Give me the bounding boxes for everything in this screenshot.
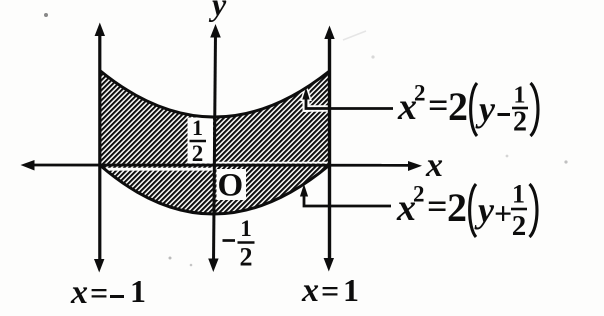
svg-text:1: 1 (192, 115, 203, 140)
y-axis (214, 33, 216, 263)
x=-1 bottom arrowhead (94, 259, 104, 273)
y-axis bottom arrowhead (208, 259, 218, 273)
svg-text:1: 1 (240, 216, 252, 241)
svg-text:=: = (90, 275, 108, 311)
label -1/2 on y axis (223, 216, 255, 272)
svg-text:1: 1 (514, 83, 526, 109)
svg-text:+: + (494, 195, 512, 231)
faint scan speckles (44, 13, 568, 266)
x=1 bottom arrowhead (324, 258, 334, 272)
svg-text:1: 1 (343, 272, 359, 308)
x=-1 top arrowhead (95, 23, 105, 37)
white label box for 1/2 (188, 118, 214, 164)
svg-text:2: 2 (513, 107, 527, 138)
vertical line x=-1 (98, 31, 101, 264)
vertical line x=1 (328, 34, 331, 263)
equation x^2 = 2(y - 1/2) (397, 81, 538, 138)
white label box for O (217, 169, 247, 200)
white gap under x-axis (left of origin, scan halo) (104, 168, 213, 171)
svg-text:=: = (321, 273, 339, 309)
svg-text:=: = (427, 186, 448, 226)
svg-text:2: 2 (413, 182, 425, 207)
upper parabola curve x^2=2(y-1/2) (100, 71, 330, 118)
equation x^2 = 2(y + 1/2) (396, 180, 537, 243)
svg-text:2: 2 (192, 141, 204, 166)
svg-text:=: = (428, 85, 449, 125)
x=1 top arrowhead (324, 26, 334, 40)
lower parabola curve x^2=2(y+1/2) (100, 165, 330, 214)
white halo for upper leader stub (302, 88, 332, 113)
svg-text:x: x (425, 147, 443, 184)
leader line to lower curve (300, 184, 391, 206)
svg-text:x: x (70, 274, 88, 311)
x-axis (26, 164, 414, 167)
y-axis top arrowhead (210, 24, 221, 38)
hatched region between the two parabolas (100, 71, 330, 215)
svg-text:1: 1 (130, 273, 146, 309)
svg-text:2: 2 (447, 185, 467, 230)
leader line to upper curve (302, 88, 393, 109)
x-axis right arrowhead (408, 161, 422, 171)
x-axis left arrowhead (21, 160, 35, 171)
label x = -1 (70, 273, 146, 311)
svg-text:1: 1 (512, 180, 525, 209)
svg-text:y: y (475, 89, 496, 129)
svg-text:2: 2 (448, 84, 468, 129)
svg-text:2: 2 (240, 243, 253, 272)
label 1/2 on y axis (190, 115, 207, 166)
svg-text:2: 2 (414, 81, 426, 106)
svg-text:O: O (218, 168, 244, 204)
label x = 1 (301, 272, 359, 309)
svg-text:2: 2 (512, 210, 527, 242)
svg-text:y: y (474, 190, 495, 230)
white gap above x-axis (right of origin, scan halo) (216, 162, 327, 164)
svg-text:x: x (301, 272, 319, 309)
